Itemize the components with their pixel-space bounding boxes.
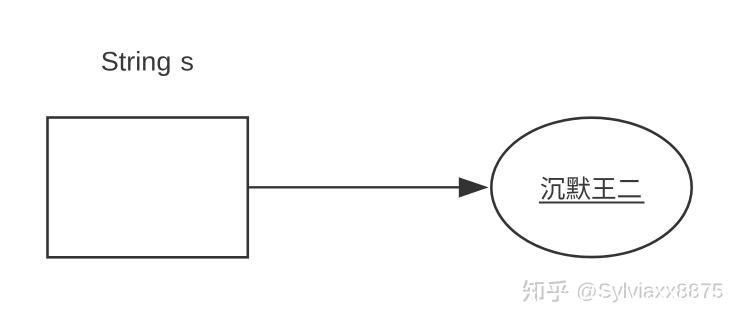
underline under 沉默王二 xyxy=(539,202,645,204)
text 沉默王二 xyxy=(541,176,641,200)
wire: arrow shaft from rectangle to ellipse xyxy=(249,186,461,188)
svg-text:String s: String s xyxy=(101,47,194,77)
watermark white emboss layer xyxy=(525,281,726,305)
ellipse: string object node xyxy=(491,118,691,257)
rectangle: variable s box xyxy=(48,118,248,258)
arrowhead xyxy=(459,177,489,197)
watermark gray layer xyxy=(523,279,724,303)
